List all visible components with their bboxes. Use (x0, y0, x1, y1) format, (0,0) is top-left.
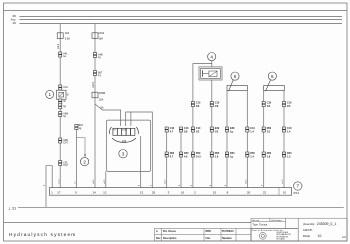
svg-text:1g: 1g (230, 156, 233, 159)
svg-text:2102: 2102 (98, 31, 104, 35)
svg-text:5: 5 (234, 74, 237, 79)
svg-text:CA7: CA7 (63, 142, 68, 145)
svg-text:7: 7 (297, 184, 300, 189)
svg-text:PAGE:: PAGE: (303, 235, 311, 238)
svg-text:1g: 1g (230, 131, 233, 134)
svg-text:245309_0_1: 245309_0_1 (317, 222, 337, 226)
svg-text:29: 29 (152, 191, 156, 195)
svg-text:HOLLAND: HOLLAND (276, 238, 285, 241)
svg-text:A: A (156, 230, 158, 233)
svg-text:1: 1 (49, 92, 52, 97)
svg-text:15: 15 (12, 21, 16, 25)
svg-text:Needam: Needam (222, 237, 232, 240)
svg-text:239M: 239M (99, 91, 106, 95)
svg-text:⊥ 31: ⊥ 31 (8, 207, 16, 211)
svg-text:Type: Tunuria: Type: Tunuria (253, 224, 268, 227)
svg-text:Rev: Rev (156, 237, 161, 240)
svg-text:D: D (67, 93, 69, 96)
svg-text:103: 103 (65, 31, 70, 35)
svg-text:A-9: A-9 (342, 236, 346, 239)
svg-text:Description: Description (163, 237, 177, 240)
svg-text:m2.5: m2.5 (92, 81, 95, 87)
svg-text:10: 10 (283, 191, 287, 195)
svg-text:2: 2 (83, 159, 86, 164)
svg-text:20: 20 (247, 191, 251, 195)
svg-text:054: 054 (294, 191, 300, 195)
svg-text:13: 13 (140, 191, 144, 195)
svg-text:BBR: BBR (206, 230, 212, 233)
svg-text:14: 14 (92, 191, 96, 195)
svg-text:1/1: 1/1 (317, 234, 322, 238)
svg-text:14.3: 14.3 (196, 156, 201, 159)
svg-text:15: 15 (213, 191, 217, 195)
svg-text:suH autates: suH autates (271, 219, 282, 222)
svg-text:12: 12 (103, 191, 107, 195)
svg-text:w1.5: w1.5 (57, 43, 60, 49)
svg-text:GROUP:: GROUP: (303, 229, 313, 232)
svg-text:3A: 3A (100, 106, 103, 110)
svg-text:22: 22 (263, 191, 267, 195)
svg-text:246: 246 (122, 139, 127, 143)
svg-text:Get satt: Get satt (252, 219, 259, 222)
svg-text:3.5A: 3.5A (65, 37, 71, 41)
svg-text:4: 4 (210, 54, 213, 59)
svg-text:6: 6 (271, 74, 274, 79)
svg-text:16: 16 (181, 191, 185, 195)
svg-text:(Assembly: (Assembly (303, 223, 315, 226)
svg-text:D1S1: D1S1 (122, 130, 128, 132)
svg-text:CA7: CA7 (63, 164, 68, 167)
svg-text:17: 17 (57, 191, 61, 195)
svg-text:16A: 16A (98, 37, 103, 41)
svg-text:15A: 15A (99, 98, 104, 102)
svg-text:Fiat.: Fiat. (206, 237, 211, 240)
svg-text:Hydraulysch systeem: Hydraulysch systeem (9, 232, 76, 238)
svg-text:CL9: CL9 (63, 86, 68, 89)
svg-text:Fld. Viessa: Fld. Viessa (163, 230, 176, 233)
svg-text:3: 3 (122, 151, 125, 156)
svg-text:PU7/09/13: PU7/09/13 (222, 230, 234, 233)
